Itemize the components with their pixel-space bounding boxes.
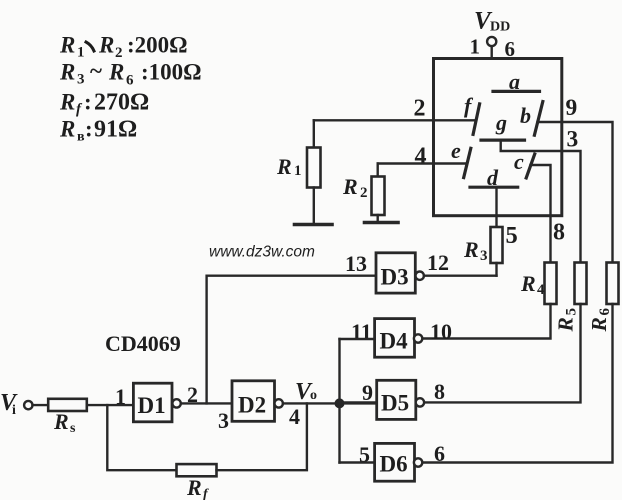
R5 label (rotated) (554, 308, 580, 333)
Vdd label (474, 8, 510, 35)
wire segment c to pin8 to R4 (531, 165, 551, 263)
svg-text:R: R (59, 33, 75, 58)
svg-text:8: 8 (434, 379, 445, 404)
resistor R3 (491, 227, 503, 276)
wire pin2 to segment f (314, 119, 476, 121)
svg-text:R: R (59, 60, 75, 85)
wire R5 to D5 output (424, 304, 581, 402)
svg-text:D2: D2 (238, 393, 266, 418)
svg-text::200Ω: :200Ω (127, 33, 188, 58)
wire Vi to Rs (33, 404, 49, 406)
svg-text:R: R (53, 409, 69, 434)
svg-text:D3: D3 (381, 265, 409, 290)
resistor Rs (48, 399, 87, 411)
R6 label (rotated) (587, 308, 613, 333)
resistor R2 (372, 164, 385, 223)
svg-text:CD4069: CD4069 (105, 331, 181, 356)
svg-text::: : (85, 117, 93, 142)
tick comma between R1 and R2 (86, 42, 94, 51)
svg-text:R: R (463, 237, 479, 262)
svg-text:b: b (520, 103, 531, 128)
wire R4 to D4 output (422, 304, 550, 339)
svg-text::: : (84, 90, 92, 115)
svg-text:D4: D4 (380, 329, 409, 354)
svg-text:5: 5 (564, 308, 580, 316)
svg-text:5: 5 (506, 222, 518, 249)
svg-text:R: R (520, 271, 536, 296)
svg-text:11: 11 (351, 319, 372, 344)
svg-text:R: R (276, 154, 292, 179)
svg-text:9: 9 (566, 95, 578, 121)
svg-text:R: R (59, 117, 75, 142)
svg-text:D1: D1 (138, 393, 166, 418)
svg-text:f: f (76, 102, 83, 118)
Vi input label (0, 390, 18, 418)
wire D2 out to node (283, 402, 377, 404)
svg-text:f: f (203, 487, 209, 500)
segment g (481, 139, 525, 142)
R1 label (276, 154, 302, 179)
svg-text:DD: DD (490, 20, 510, 35)
svg-text:1: 1 (115, 384, 126, 409)
wire segment d to pin5 to R3 (495, 187, 497, 227)
svg-text:R: R (587, 317, 611, 332)
svg-text:s: s (70, 421, 76, 436)
svg-text:4: 4 (415, 144, 427, 170)
svg-text:10: 10 (430, 319, 452, 344)
segment d (470, 186, 518, 189)
Vdd power terminal (487, 37, 496, 59)
feedback wire to Rf (107, 405, 176, 470)
svg-text:6: 6 (434, 441, 445, 466)
inverter D1 (133, 383, 180, 422)
svg-text:R: R (554, 317, 578, 332)
wire node to D4 (340, 338, 375, 340)
wire R6 to D6 output (422, 304, 612, 463)
wire D3 out to R3 (424, 275, 497, 277)
svg-text:3: 3 (218, 408, 229, 433)
svg-text:~: ~ (90, 59, 102, 84)
svg-text:2: 2 (414, 96, 426, 122)
svg-text:R: R (342, 174, 358, 199)
R4 label (520, 271, 545, 298)
svg-text::100Ω: :100Ω (141, 60, 202, 85)
svg-text:13: 13 (345, 251, 367, 276)
inverter D2 (232, 381, 283, 422)
segment f (473, 104, 480, 134)
Rs label (53, 409, 76, 436)
resistor Rf (177, 464, 217, 476)
svg-text:3: 3 (567, 127, 579, 153)
segment b (534, 102, 542, 136)
wire node to D6 (340, 461, 375, 463)
svg-text:D5: D5 (381, 391, 409, 416)
svg-text:6: 6 (126, 73, 134, 89)
wire Rs to D1 input (87, 404, 134, 406)
svg-text:12: 12 (427, 250, 449, 275)
segment e (464, 148, 471, 177)
value label Rs 91ohm (59, 117, 137, 145)
svg-text:3: 3 (77, 72, 85, 88)
wire Vo node vertical to D4 and D6 (338, 339, 340, 463)
R3 label (463, 237, 488, 264)
wire node to D5 (345, 401, 377, 403)
value label R3~R6 100ohm (59, 59, 202, 89)
wire D1 to D2 (181, 402, 232, 404)
R2 label (342, 174, 368, 201)
svg-text:o: o (310, 388, 317, 403)
Vi input terminal (24, 401, 32, 409)
svg-text:i: i (12, 403, 16, 418)
inverter D4 (375, 319, 423, 358)
segment c (526, 154, 535, 178)
svg-text:270Ω: 270Ω (94, 90, 149, 116)
svg-text:R: R (186, 475, 202, 500)
segment a (493, 90, 540, 93)
svg-text:www.dz3w.com: www.dz3w.com (209, 244, 315, 261)
wire segment g to pin3 to R5 (501, 140, 581, 262)
resistor R1 (307, 120, 321, 224)
svg-text:a: a (509, 69, 520, 94)
node Vo junction (335, 398, 345, 408)
svg-text:R: R (98, 33, 114, 58)
svg-text:2: 2 (360, 185, 368, 201)
svg-text:D6: D6 (380, 452, 408, 477)
svg-text:8: 8 (553, 220, 565, 246)
resistor R5 (575, 263, 587, 305)
Vo label (295, 379, 317, 405)
wire pin4 to segment e (378, 162, 467, 164)
svg-text:3: 3 (480, 248, 488, 264)
wire segment b to pin9 to R6 (538, 122, 613, 263)
svg-text:f: f (464, 93, 474, 118)
svg-text:4: 4 (537, 282, 545, 298)
ground for R2 (365, 221, 399, 225)
Rf label (186, 475, 209, 500)
svg-text:1: 1 (77, 45, 85, 61)
ground for R1 (295, 223, 333, 227)
svg-text:1: 1 (470, 35, 481, 59)
svg-text:R: R (59, 90, 75, 115)
inverter D6 (375, 443, 423, 481)
inverter D5 (377, 380, 424, 419)
resistor R4 (545, 263, 557, 305)
svg-text:4: 4 (289, 404, 300, 429)
inverter D3 (376, 253, 424, 293)
wire Rf to Vo (217, 403, 307, 470)
wire node to D3 input (207, 276, 376, 404)
svg-text:c: c (514, 149, 524, 174)
svg-text:в: в (77, 130, 85, 145)
svg-text:6: 6 (597, 308, 613, 316)
svg-text:R: R (108, 60, 124, 85)
value label R1 R2 200ohm (59, 33, 188, 62)
display box U1 (7-segment) (434, 59, 562, 216)
svg-text:1: 1 (294, 163, 302, 179)
svg-text:91Ω: 91Ω (94, 117, 137, 143)
svg-text:g: g (495, 110, 507, 135)
resistor R6 (607, 263, 619, 305)
svg-text:e: e (451, 138, 461, 163)
value label Rf 270ohm (59, 90, 149, 118)
